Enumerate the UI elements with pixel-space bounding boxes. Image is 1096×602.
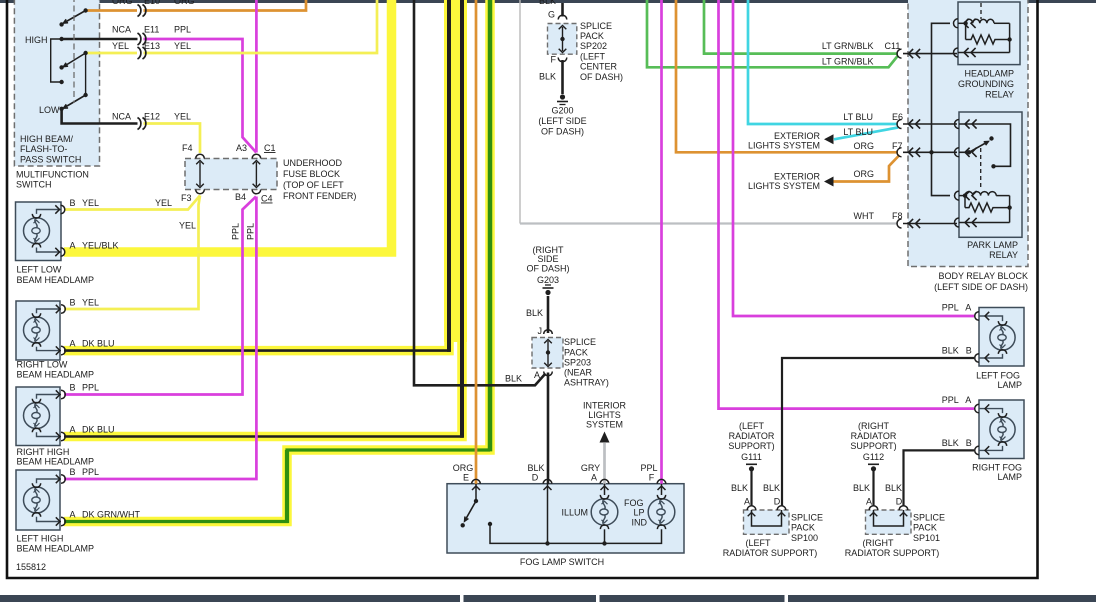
- svg-text:LT GRN/BLK: LT GRN/BLK: [822, 41, 874, 51]
- svg-text:INTERIOR: INTERIOR: [583, 401, 627, 411]
- left fog lamp lamp: [979, 316, 1003, 321]
- svg-text:YEL: YEL: [82, 198, 99, 208]
- svg-text:ORG: ORG: [453, 463, 474, 473]
- park relay F8 path: [955, 218, 960, 227]
- svg-text:RADIATOR SUPPORT): RADIATOR SUPPORT): [845, 548, 940, 558]
- svg-text:A: A: [70, 241, 76, 251]
- svg-text:MULTIFUNCTION: MULTIFUNCTION: [16, 170, 89, 180]
- SP203 arrow: [547, 341, 549, 365]
- svg-text:PPL: PPL: [640, 463, 657, 473]
- fuse block pin F4: [196, 154, 205, 158]
- svg-text:G111: G111: [741, 452, 762, 462]
- park relay junction F7: [929, 150, 933, 154]
- svg-text:PACK: PACK: [913, 523, 937, 533]
- svg-text:155812: 155812: [16, 562, 46, 572]
- fog switch contact: [488, 522, 492, 526]
- svg-text:YEL: YEL: [174, 41, 191, 51]
- svg-text:SIDE: SIDE: [537, 254, 558, 264]
- svg-text:RADIATOR SUPPORT): RADIATOR SUPPORT): [723, 548, 818, 558]
- connector C11: [897, 49, 902, 58]
- svg-text:EXTERIOR: EXTERIOR: [774, 131, 821, 141]
- body relay block box: [908, 0, 1028, 267]
- svg-text:E13: E13: [144, 41, 160, 51]
- highlight band right low A DK BLU: [64, 0, 449, 351]
- svg-text:LP: LP: [634, 508, 645, 518]
- svg-text:PPL: PPL: [942, 395, 959, 405]
- svg-text:A: A: [591, 473, 597, 483]
- svg-text:(NEAR: (NEAR: [564, 368, 593, 378]
- park relay resistor: [964, 196, 966, 208]
- wire YEL/BLK left low A: [64, 0, 392, 252]
- svg-text:E6: E6: [892, 112, 903, 122]
- svg-text:ASHTRAY): ASHTRAY): [564, 378, 609, 388]
- wire GRY interior lights to fog switch A: [603, 443, 606, 484]
- wire BLK G112 to SP101 A: [872, 471, 874, 506]
- arrow exterior lights system LT BLU: [824, 134, 834, 144]
- switch blade LOW: [65, 95, 86, 108]
- connector E13: [138, 47, 141, 59]
- svg-text:RELAY: RELAY: [985, 90, 1014, 100]
- svg-text:HIGH: HIGH: [25, 35, 48, 45]
- svg-text:BLK: BLK: [763, 483, 780, 493]
- splice pack SP100 internals: [747, 506, 756, 510]
- svg-text:ILLUM: ILLUM: [561, 508, 588, 518]
- switch contact ORG: [83, 8, 87, 12]
- wire E10 ORG to top: [144, 0, 307, 11]
- svg-text:D: D: [774, 497, 781, 507]
- park relay coil connector: [955, 191, 960, 200]
- svg-text:F: F: [551, 55, 557, 65]
- svg-text:IND: IND: [632, 518, 648, 528]
- fog lamp switch box: [447, 484, 684, 553]
- splice pack SP101 box: [866, 510, 912, 534]
- wire DK BLU right low A: [64, 349, 450, 352]
- headlamp grounding relay box: [958, 2, 1020, 65]
- svg-text:UNDERHOOD: UNDERHOOD: [283, 158, 343, 168]
- wire LT GRN/BLK upper to C11: [704, 0, 898, 54]
- bottom taskbar: [0, 595, 460, 602]
- svg-text:SPLICE: SPLICE: [580, 21, 612, 31]
- wire YEL switch to E13: [86, 52, 137, 55]
- switch pivot link: [85, 53, 87, 95]
- wire WHT to F8: [520, 222, 898, 224]
- svg-text:(LEFT SIDE OF DASH): (LEFT SIDE OF DASH): [934, 282, 1028, 292]
- svg-text:(LEFT: (LEFT: [745, 538, 771, 548]
- svg-text:C11: C11: [885, 41, 901, 51]
- wire BLK right fog B to SP101 D: [904, 450, 975, 506]
- svg-text:BEAM HEADLAMP: BEAM HEADLAMP: [17, 544, 95, 554]
- svg-text:B: B: [966, 346, 972, 356]
- wire PPL to right fog lamp A: [719, 0, 975, 409]
- park relay F7 common: [955, 148, 960, 157]
- svg-text:DK BLU: DK BLU: [82, 339, 115, 349]
- fog switch bulb ILLUM: [591, 499, 618, 526]
- HG relay armature dash: [980, 3, 982, 19]
- park relay right link: [1009, 196, 1011, 223]
- left low beam headlamp box: [16, 202, 62, 261]
- left high beam headlamp lamp: [37, 479, 62, 483]
- HG relay coil: [963, 21, 967, 25]
- svg-text:A: A: [70, 425, 76, 435]
- svg-text:C1: C1: [264, 143, 276, 153]
- svg-text:PPL: PPL: [942, 303, 959, 313]
- svg-text:LT GRN/BLK: LT GRN/BLK: [822, 57, 874, 67]
- svg-text:A: A: [534, 370, 540, 380]
- svg-text:PACK: PACK: [580, 31, 604, 41]
- svg-text:FOG: FOG: [624, 498, 644, 508]
- svg-text:LIGHTS SYSTEM: LIGHTS SYSTEM: [748, 141, 820, 151]
- wire BLK G111 to SP100 A: [750, 471, 752, 506]
- svg-text:OF DASH): OF DASH): [580, 72, 623, 82]
- svg-text:LEFT LOW: LEFT LOW: [17, 265, 62, 275]
- park relay armature dash: [980, 148, 982, 189]
- svg-text:(RIGHT: (RIGHT: [858, 421, 889, 431]
- svg-text:(LEFT: (LEFT: [580, 52, 606, 62]
- wire NCA low contact to E12: [62, 109, 138, 124]
- ground G200: [560, 94, 565, 99]
- svg-text:OF DASH): OF DASH): [541, 127, 584, 137]
- right low beam headlamp box: [16, 301, 60, 360]
- svg-text:DK BLU: DK BLU: [82, 425, 115, 435]
- wire DK BLU right high A: [64, 435, 463, 438]
- svg-text:YEL: YEL: [174, 112, 191, 122]
- fog switch pin E: [472, 479, 481, 483]
- park relay coil: [963, 193, 967, 197]
- svg-text:E12: E12: [144, 112, 160, 122]
- svg-text:A: A: [866, 497, 872, 507]
- svg-text:PPL: PPL: [246, 223, 256, 240]
- svg-text:NCA: NCA: [112, 112, 131, 122]
- svg-text:E: E: [463, 473, 469, 483]
- svg-text:PPL: PPL: [82, 383, 99, 393]
- connector E12: [138, 118, 141, 130]
- HG relay wire to park relay coil: [932, 23, 951, 195]
- splice pack SP100 box: [744, 510, 790, 534]
- svg-text:SP100: SP100: [791, 533, 818, 543]
- right low beam headlamp lamp: [37, 309, 62, 313]
- wire YEL F3 to right low B: [64, 196, 200, 310]
- svg-text:BLK: BLK: [539, 0, 556, 6]
- wire ORG to F7: [676, 0, 898, 152]
- arrow interior lights system: [600, 432, 610, 443]
- SP203 pin J arc: [544, 330, 553, 334]
- svg-text:BLK: BLK: [853, 483, 870, 493]
- svg-text:E10: E10: [144, 0, 160, 6]
- svg-text:F8: F8: [892, 211, 903, 221]
- svg-text:ORG: ORG: [853, 141, 874, 151]
- wire E13 YEL to top: [144, 0, 378, 53]
- wire BLK from top to SP203: [414, 0, 546, 385]
- svg-text:A3: A3: [236, 143, 247, 153]
- svg-text:BEAM HEADLAMP: BEAM HEADLAMP: [17, 275, 95, 285]
- fog switch pin D: [543, 479, 552, 483]
- switch inner dashed divider: [73, 0, 75, 103]
- svg-text:B: B: [70, 467, 76, 477]
- svg-text:RADIATOR: RADIATOR: [729, 431, 775, 441]
- svg-text:LAMP: LAMP: [997, 380, 1022, 390]
- svg-text:LIGHTS: LIGHTS: [588, 410, 621, 420]
- svg-text:LT BLU: LT BLU: [843, 112, 873, 122]
- svg-text:FRONT FENDER): FRONT FENDER): [283, 191, 356, 201]
- svg-text:SWITCH: SWITCH: [16, 180, 52, 190]
- svg-text:ORG: ORG: [174, 0, 195, 6]
- fuse block arrow C1-C4: [255, 162, 257, 186]
- svg-text:D: D: [532, 473, 539, 483]
- svg-text:BLK: BLK: [526, 308, 543, 318]
- svg-text:YEL: YEL: [155, 198, 172, 208]
- wire PPL C4 to left high B: [64, 197, 256, 480]
- svg-text:F: F: [649, 473, 655, 483]
- svg-text:J: J: [538, 326, 543, 336]
- wire NCA high contact to E11: [62, 38, 138, 41]
- left high beam headlamp box: [16, 470, 60, 530]
- svg-text:G112: G112: [863, 452, 884, 462]
- svg-text:RIGHT LOW: RIGHT LOW: [17, 360, 68, 370]
- wire PPL B4 to right high B: [64, 197, 256, 395]
- wire PPL to left fog lamp A: [733, 0, 974, 316]
- svg-text:F3: F3: [181, 193, 192, 203]
- multifunction switch box: [14, 0, 99, 166]
- svg-text:(LEFT SIDE: (LEFT SIDE: [538, 116, 586, 126]
- left fog lamp box: [979, 308, 1024, 367]
- wire YEL F3 to left low B: [64, 196, 200, 210]
- svg-text:F7: F7: [892, 141, 903, 151]
- svg-text:F4: F4: [182, 143, 193, 153]
- ground G112: [871, 466, 876, 471]
- svg-text:LIGHTS SYSTEM: LIGHTS SYSTEM: [748, 181, 820, 191]
- svg-text:SP101: SP101: [913, 533, 940, 543]
- svg-text:GROUNDING: GROUNDING: [958, 79, 1014, 89]
- wire E12 YEL to fuse block F4: [144, 124, 201, 154]
- switch blade high-beam: [65, 11, 86, 23]
- svg-text:DK GRN/WHT: DK GRN/WHT: [82, 510, 140, 520]
- park lamp relay box: [959, 112, 1022, 237]
- svg-text:SP203: SP203: [564, 358, 591, 368]
- splice pack SP202 box: [548, 24, 577, 55]
- svg-text:RIGHT FOG: RIGHT FOG: [972, 463, 1022, 473]
- fog switch pin F: [657, 479, 666, 483]
- svg-text:BLK: BLK: [885, 483, 902, 493]
- svg-text:A: A: [70, 510, 76, 520]
- SP202 pin F arc: [558, 58, 567, 62]
- svg-text:NCA: NCA: [112, 25, 131, 35]
- wire BLK SP202 F to G200: [561, 60, 564, 94]
- park relay blade: [969, 143, 987, 153]
- svg-text:(RIGHT: (RIGHT: [863, 538, 894, 548]
- svg-text:HEADLAMP: HEADLAMP: [964, 69, 1014, 79]
- HG relay coil connector: [954, 19, 959, 28]
- wire BLK left fog B to SP100 D: [782, 358, 974, 506]
- svg-text:C4: C4: [261, 194, 273, 204]
- HG relay right link: [1009, 23, 1011, 52]
- svg-text:RIGHT HIGH: RIGHT HIGH: [17, 447, 70, 457]
- wire ORG from high-beam switch to E10: [86, 9, 137, 12]
- underhood fuse block box: [185, 159, 277, 190]
- svg-text:YEL: YEL: [82, 298, 99, 308]
- connector F8: [897, 219, 902, 228]
- svg-text:YEL: YEL: [179, 221, 196, 231]
- svg-text:B: B: [70, 298, 76, 308]
- svg-text:ORG: ORG: [853, 169, 874, 179]
- svg-text:PARK LAMP: PARK LAMP: [967, 240, 1018, 250]
- wire LT GRN/BLK lower to C11: [647, 0, 898, 67]
- svg-text:BLK: BLK: [942, 346, 959, 356]
- fuse block pin B4/C4: [252, 190, 261, 194]
- svg-text:FOG LAMP SWITCH: FOG LAMP SWITCH: [520, 557, 604, 567]
- svg-text:LAMP: LAMP: [997, 472, 1022, 482]
- svg-text:LOW: LOW: [39, 105, 60, 115]
- fuse block arrow F4-F3: [199, 162, 201, 186]
- svg-text:BEAM HEADLAMP: BEAM HEADLAMP: [17, 370, 95, 380]
- svg-text:SPLICE: SPLICE: [913, 513, 945, 523]
- svg-text:PACK: PACK: [791, 523, 815, 533]
- svg-text:(LEFT: (LEFT: [739, 421, 765, 431]
- HG relay resistor: [965, 23, 967, 39]
- svg-text:E11: E11: [144, 25, 159, 35]
- svg-text:BEAM HEADLAMP: BEAM HEADLAMP: [17, 457, 95, 467]
- switch contact YEL: [83, 51, 87, 55]
- svg-text:SPLICE: SPLICE: [564, 337, 596, 347]
- ground G203: [545, 290, 550, 295]
- svg-text:YEL/BLK: YEL/BLK: [82, 241, 119, 251]
- svg-text:A: A: [965, 303, 971, 313]
- fog switch blade: [474, 499, 478, 503]
- right fog lamp lamp: [979, 409, 1003, 414]
- SP202 pin G arc: [558, 15, 567, 19]
- svg-text:BODY RELAY BLOCK: BODY RELAY BLOCK: [938, 271, 1028, 281]
- svg-text:LEFT FOG: LEFT FOG: [976, 371, 1020, 381]
- top toolbar edge: [0, 0, 1096, 3]
- wire DK GRN/WHT left high A: [64, 450, 490, 522]
- svg-text:(TOP OF LEFT: (TOP OF LEFT: [283, 180, 344, 190]
- svg-text:LEFT HIGH: LEFT HIGH: [17, 534, 64, 544]
- svg-text:SP202: SP202: [580, 41, 607, 51]
- svg-text:BLK: BLK: [539, 72, 556, 82]
- wire PPL C1 from top: [255, 0, 258, 153]
- svg-text:A: A: [744, 497, 750, 507]
- svg-text:GRY: GRY: [581, 463, 600, 473]
- svg-text:PASS SWITCH: PASS SWITCH: [20, 155, 81, 165]
- switch blade mid: [65, 53, 86, 66]
- svg-text:CENTER: CENTER: [580, 62, 618, 72]
- SP202 arrow: [562, 27, 564, 51]
- svg-text:ORG: ORG: [112, 0, 133, 6]
- wire E11 PPL to fuse block C1: [144, 39, 257, 153]
- svg-text:PPL: PPL: [174, 25, 191, 35]
- svg-text:B4: B4: [235, 192, 246, 202]
- svg-text:PPL: PPL: [231, 223, 241, 240]
- svg-text:G200: G200: [551, 106, 573, 116]
- svg-text:G203: G203: [537, 275, 559, 285]
- svg-text:SPLICE: SPLICE: [791, 513, 823, 523]
- park relay E6 path: [955, 120, 960, 129]
- svg-text:BLK: BLK: [942, 438, 959, 448]
- fog switch junction A: [604, 529, 606, 543]
- svg-text:A: A: [70, 339, 76, 349]
- svg-text:PPL: PPL: [82, 467, 99, 477]
- svg-text:B: B: [966, 438, 972, 448]
- svg-text:BLK: BLK: [527, 463, 544, 473]
- right high beam headlamp box: [16, 387, 60, 446]
- svg-text:B: B: [70, 198, 76, 208]
- HG relay C11 connector: [954, 48, 959, 57]
- highlight band left low A YEL/BLK: [64, 0, 392, 252]
- svg-text:A: A: [965, 395, 971, 405]
- svg-text:HIGH BEAM/: HIGH BEAM/: [20, 134, 74, 144]
- gray section panel: [519, 0, 521, 224]
- right fog lamp box: [979, 400, 1024, 459]
- switch link HIGH to lower contact: [51, 39, 62, 82]
- fog switch bulb FOG LP IND: [648, 499, 675, 526]
- svg-text:RADIATOR: RADIATOR: [851, 431, 897, 441]
- connector E6: [897, 120, 902, 129]
- switch contact LOW: [59, 107, 63, 111]
- connector E10: [138, 5, 141, 17]
- wire ORG F7 to exterior lights: [834, 155, 900, 182]
- svg-text:EXTERIOR: EXTERIOR: [774, 172, 821, 182]
- arrow exterior lights system ORG: [824, 177, 834, 187]
- fog switch pin A: [600, 479, 609, 483]
- left low beam headlamp lamp: [37, 210, 61, 214]
- right high beam headlamp lamp: [37, 395, 62, 399]
- svg-text:YEL: YEL: [112, 41, 129, 51]
- svg-text:FLASH-TO-: FLASH-TO-: [20, 144, 67, 154]
- svg-text:BLK: BLK: [731, 483, 748, 493]
- wire ORG from top to fog switch E: [475, 0, 478, 484]
- svg-text:WHT: WHT: [854, 211, 875, 221]
- wire BLK SP202 G from top: [561, 3, 564, 17]
- splice pack SP101 internals: [869, 506, 878, 510]
- svg-text:D: D: [896, 497, 903, 507]
- wire PPL from top to fog switch F: [660, 0, 663, 484]
- connector E11: [138, 33, 141, 45]
- svg-text:BLK: BLK: [505, 374, 522, 384]
- highlight band right high A DK BLU: [64, 0, 462, 437]
- ground G111: [749, 466, 754, 471]
- wire LT BLU E6 to exterior lights: [834, 128, 898, 140]
- svg-text:LT BLU: LT BLU: [843, 127, 873, 137]
- svg-text:SUPPORT): SUPPORT): [728, 441, 774, 451]
- connector F7: [897, 148, 902, 157]
- svg-text:B: B: [70, 383, 76, 393]
- svg-text:FUSE BLOCK: FUSE BLOCK: [283, 169, 340, 179]
- svg-text:SUPPORT): SUPPORT): [850, 441, 896, 451]
- fuse block pin A3/C1: [252, 154, 261, 158]
- highlight band bundle filler: [444, 0, 467, 342]
- svg-text:OF DASH): OF DASH): [526, 264, 569, 274]
- svg-text:RELAY: RELAY: [989, 250, 1018, 260]
- svg-text:G: G: [548, 10, 555, 20]
- fog switch junction D: [545, 541, 549, 545]
- svg-text:SYSTEM: SYSTEM: [586, 420, 623, 430]
- wire BLK G203 to SP203 J: [547, 296, 550, 333]
- fuse block pin F3: [196, 190, 205, 194]
- wire LT BLU to E6: [748, 0, 898, 124]
- SP203 pin A arc: [544, 372, 553, 376]
- wire BLK SP203 A to fog switch D: [547, 373, 550, 485]
- splice pack SP203 box: [532, 338, 563, 369]
- switch contact HIGH: [59, 37, 63, 41]
- svg-text:PACK: PACK: [564, 348, 588, 358]
- highlight band left high A DK GRN/WHT: [64, 0, 490, 522]
